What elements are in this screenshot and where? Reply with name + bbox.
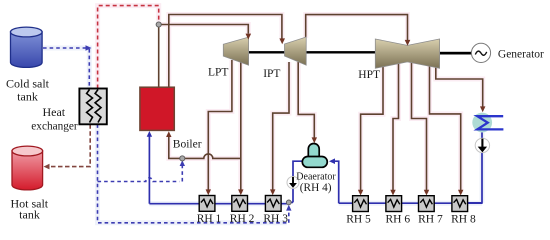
wire: blue dashed cold-salt from cold tank to heat exchanger [43,48,89,89]
arrow hot-salt left into tank [44,164,50,170]
shaft IPT-HPT [306,51,375,53]
arrow into condenser [480,106,485,112]
heat exchanger coil 1 [87,90,93,123]
RH 5 heater [353,196,369,212]
shaft LPT-IPT [249,51,285,53]
wire: LPT extraction 2 to RH2 [240,62,242,192]
svg-text:Cold salt: Cold salt [6,76,50,90]
arrow into RH 3 [270,189,275,195]
wire: HPT extraction 1 to RH5 [361,62,383,192]
generator G [471,43,490,62]
svg-text:exchanger: exchanger [31,120,78,132]
svg-text:tank: tank [19,208,40,222]
svg-text:tank: tank [17,89,38,103]
turbine LPT [223,37,248,65]
arrow into IPT [279,38,285,44]
wire: node A to LPT inlet [159,25,249,88]
node A junction [156,22,161,27]
svg-text:RH 8: RH 8 [451,213,476,225]
turbine IPT [285,37,307,65]
shaft HPT-generator [440,52,472,55]
wire: red dashed hot-salt supply from heat exchanger top to node A [98,6,159,89]
svg-text:RH 3: RH 3 [263,213,288,225]
hot salt tank [12,146,43,190]
RH 8 heater [452,196,468,212]
svg-text:RH 2: RH 2 [230,213,255,225]
RH 7 heater [419,196,435,212]
RH 1 heater [199,196,215,212]
svg-text:IPT: IPT [263,68,280,80]
svg-text:RH 7: RH 7 [418,213,443,225]
wire: cold reheat return to boiler bottom with hop over RH1 line [169,135,241,158]
heat exchanger coil 2 [95,90,101,123]
wire: main steam boiler top to IPT [169,15,282,88]
svg-text:RH 5: RH 5 [346,213,371,225]
arrow into RH 6 [390,190,395,196]
arrow feedwater into deaerator right [329,158,335,164]
boiler [140,87,174,130]
arrow into RH 2 [238,189,243,195]
wire: LPT extraction 1 to RH1 [208,60,232,192]
wire: HPT extraction 2 to RH6 [393,62,399,192]
pump P2 left of deaerator [287,177,299,189]
arrow feedwater up into boiler [147,131,152,137]
svg-text:Generator: Generator [498,48,544,60]
wire: blue dashed cooled-salt return from heat exchanger bottom down and right [98,124,289,223]
svg-text:LPT: LPT [208,67,228,79]
wire: IPT top to HPT inlet [306,15,408,40]
svg-text:Boiler: Boiler [173,138,202,150]
wire: feedwater condensate main blue line [149,132,482,203]
svg-text:Deaerator: Deaerator [296,171,336,182]
arrow into RH 7 [424,190,429,196]
arrow up into boiler bottom [166,131,171,137]
pump P1 below condenser [475,138,489,152]
wire: IPT extraction 1 to RH3 [273,62,289,192]
RH 3 heater [265,196,281,212]
arrow blue dashed up into node B [180,160,185,166]
svg-text:Heat: Heat [42,105,65,119]
RH 2 heater [232,196,248,212]
arrow into HPT [405,40,411,46]
arrow into RH 8 [458,190,463,196]
node C junction [286,200,291,205]
wire: HPT extraction 4 to RH8 [430,62,461,192]
svg-text:HPT: HPT [358,69,380,81]
turbine HPT double-flow [375,39,439,68]
wire: IPT extraction 2 to deaerator [298,62,314,139]
heat exchanger box [79,89,106,125]
condenser [472,113,492,133]
arrow blue dashed up into node C [286,205,291,211]
arrow into deaerator top [312,137,317,143]
wire halo tints (background glow) [98,6,483,193]
arrow into LPT [246,34,252,40]
cold salt tank [10,27,42,67]
node B junction [180,156,185,161]
arrow into RH 1 [206,189,211,195]
wire: HPT extraction 3 to RH7 [412,62,427,192]
svg-text:(RH 4): (RH 4) [300,182,332,194]
deaerator RH4 vessel [302,144,327,168]
wire: hot-salt dashed from heat exchanger bottom to hot salt tank [48,124,90,166]
arrow into RH 5 [358,190,363,196]
wire: HPT exhaust to condenser [436,62,483,108]
svg-text:RH 1: RH 1 [197,213,222,225]
svg-text:RH 6: RH 6 [385,213,410,225]
RH 6 heater [386,196,402,212]
arrow cold-salt right [86,45,92,51]
